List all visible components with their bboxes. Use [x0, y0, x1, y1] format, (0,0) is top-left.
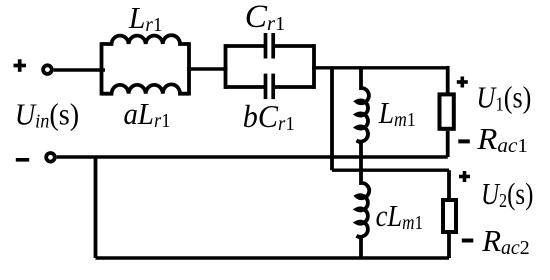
terminal - (open circle)	[46, 153, 55, 162]
wire right edge of Cr1 box	[312, 44, 316, 89]
wire Rac2 top stem	[447, 170, 451, 199]
plus sign Rac2	[459, 171, 470, 182]
wire left edge of Lr1 parallel box	[100, 42, 104, 95]
minus sign input	[16, 158, 29, 162]
inductor Lr1 (top of parallel box)	[102, 35, 190, 44]
wire left edge of Cr1 box	[224, 44, 228, 89]
inductor Lm1 (vertical coil, humps bulge right with left cusps)	[357, 68, 369, 163]
wire top rail Cr1 box to Rac1	[312, 66, 448, 69]
terminal + (open circle)	[43, 65, 52, 74]
wire Rac1 top stem	[446, 66, 450, 93]
capacitor Cr1 (top of parallel box) plates	[266, 33, 274, 59]
minus sign Rac1	[458, 139, 470, 143]
svg-text:U1(s): U1(s)	[476, 80, 531, 116]
resistor Rac2	[443, 200, 456, 232]
inductor aLr1 (bottom of parallel box)	[102, 84, 190, 93]
plus sign input	[14, 59, 27, 72]
wire Lr1 box to Cr1 box	[187, 67, 228, 70]
plus sign Rac1	[457, 77, 468, 88]
wire right edge of Lr1 parallel box	[187, 42, 191, 95]
wire minus terminal to Rac1 loop bottom	[57, 155, 448, 158]
wire Rac1 bottom stem	[446, 131, 450, 157]
capacitor bCr1 (bottom of parallel box) plates	[266, 74, 274, 100]
wire bottom edge of Cr1 box	[226, 85, 315, 89]
wire top edge of Cr1 box	[226, 44, 315, 48]
resistor Rac1	[440, 94, 454, 128]
wire vertical top rail to loop2 top rail	[330, 68, 334, 170]
wire bottom rail	[96, 256, 450, 259]
wire vertical left down from minus wire	[94, 157, 98, 258]
svg-text:U2(s): U2(s)	[481, 176, 534, 212]
wire loop2 top rail	[332, 168, 449, 171]
inductor cLm1 (vertical coil, humps bulge right with left cusps)	[357, 163, 370, 258]
minus sign Rac2	[462, 239, 474, 243]
wire Rac2 bottom stem	[447, 232, 451, 258]
wire input plus to Lr1 box	[54, 68, 105, 71]
